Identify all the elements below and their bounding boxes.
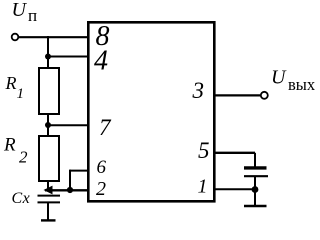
svg-text:7: 7	[99, 115, 112, 140]
svg-text:2: 2	[96, 178, 106, 200]
svg-text:R: R	[3, 135, 16, 156]
svg-text:2: 2	[19, 148, 28, 167]
svg-text:3: 3	[192, 78, 205, 103]
svg-text:6: 6	[97, 157, 107, 178]
svg-text:4: 4	[94, 46, 108, 77]
svg-text:R: R	[5, 73, 17, 93]
svg-text:вых: вых	[288, 75, 315, 94]
svg-text:U: U	[12, 0, 28, 21]
svg-text:1: 1	[17, 86, 25, 102]
svg-text:5: 5	[198, 138, 210, 163]
svg-text:1: 1	[198, 176, 208, 198]
svg-text:п: п	[28, 6, 37, 25]
svg-text:Cx: Cx	[12, 190, 31, 207]
svg-text:U: U	[271, 67, 287, 89]
